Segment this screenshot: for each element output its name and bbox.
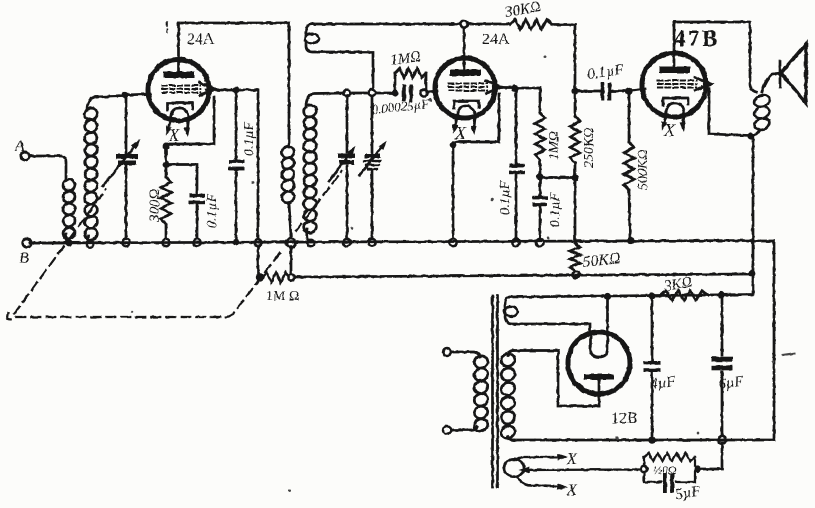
wire top bus to detector plate bbox=[313, 23, 461, 26]
V4 filament bbox=[591, 297, 608, 357]
wire to bus bbox=[574, 178, 577, 241]
wire grid condenser to V2 grid bbox=[427, 91, 437, 92]
wire T2 secondary to grid condenser bbox=[345, 92, 393, 95]
antenna coil L1 primary bbox=[61, 178, 76, 193]
junction bus / gang arrow node bbox=[287, 239, 296, 248]
tube V2 24A cathode bbox=[454, 101, 479, 108]
transformer winding: 12B filament bbox=[505, 297, 510, 307]
node: grid junction tube V1 bbox=[121, 91, 128, 98]
B+ line from rectifier bbox=[510, 295, 752, 298]
power transformer core bbox=[491, 296, 494, 487]
wire V3 plate to output bbox=[674, 22, 756, 92]
wire B to ground bus bbox=[31, 242, 66, 245]
V1 top cap lead bbox=[177, 23, 180, 73]
junction: antenna primary to bus bbox=[66, 240, 73, 247]
tube V1 24A grid bbox=[163, 84, 201, 86]
trimmer capacitor C3 bbox=[369, 89, 376, 96]
transformer T2 primary bbox=[280, 144, 296, 159]
crossover at bus bbox=[255, 239, 262, 246]
resistor 300ohm cathode bias bbox=[161, 177, 171, 224]
tube V2 24A plate bbox=[450, 70, 481, 77]
wire V3 side to output return bbox=[702, 87, 751, 136]
svg-text:0.1µF: 0.1µF bbox=[205, 193, 220, 228]
capacitor 0.1uF coupling bbox=[575, 90, 600, 93]
junction grid condenser left bbox=[391, 89, 398, 96]
tuning gang dashed link bbox=[7, 249, 283, 319]
tube V3 47B heater bbox=[666, 103, 684, 115]
resistor 500K grid bbox=[628, 91, 631, 142]
svg-text:X: X bbox=[566, 451, 578, 468]
tube V3 47B grid bbox=[658, 79, 696, 81]
tube V2 24A envelope bbox=[435, 58, 495, 118]
wire A to antenna coil bbox=[29, 156, 66, 179]
svg-text:0.1µF: 0.1µF bbox=[548, 192, 563, 227]
svg-text:12B: 12B bbox=[611, 410, 638, 427]
tube V3 47B envelope bbox=[642, 53, 706, 117]
capacitor 0.1uF bbox=[539, 177, 542, 196]
svg-text:300Ω: 300Ω bbox=[147, 189, 163, 224]
wire junction to V1 grid bbox=[125, 94, 150, 95]
tube V4 12B rectifier envelope bbox=[568, 332, 630, 394]
svg-text:0.1µF: 0.1µF bbox=[498, 180, 513, 215]
power transformer primary bbox=[443, 348, 451, 356]
tube V1 24A envelope bbox=[148, 60, 209, 121]
wire V1 plate to T2 primary bbox=[179, 23, 290, 147]
svg-text:X: X bbox=[168, 125, 181, 145]
transformer winding: HV secondary bbox=[508, 351, 513, 357]
svg-text:1MΩ: 1MΩ bbox=[547, 131, 562, 160]
resistor 30K detector plate load bbox=[467, 23, 510, 26]
svg-text:47B: 47B bbox=[674, 26, 720, 51]
resistor 50K bbox=[570, 243, 580, 271]
capacitor 6uF filter bbox=[721, 295, 724, 355]
V1 cathode circuit wires bbox=[206, 89, 236, 92]
transformer winding: output tubes filament bbox=[504, 459, 524, 476]
resistor 1M bias bbox=[256, 273, 264, 281]
speaker horn bbox=[762, 73, 781, 92]
resistor 3K filter bbox=[660, 291, 708, 301]
capacitor 5uF bbox=[644, 472, 661, 482]
svg-text:1M Ω: 1M Ω bbox=[266, 289, 299, 304]
antenna coil L1 secondary bbox=[83, 106, 99, 122]
capacitor 0.1uF cathode bypass bbox=[166, 165, 197, 195]
wire speaker return down right side bbox=[752, 136, 755, 294]
HV return wire bbox=[514, 439, 774, 442]
V2 cathode return box bbox=[456, 94, 499, 142]
tube V1 24A cathode bbox=[168, 103, 193, 110]
capacitor 4uF filter bbox=[651, 296, 654, 360]
svg-text:24A: 24A bbox=[187, 31, 215, 48]
wire hum resistor to HV return bbox=[701, 443, 722, 469]
filament lead X bottom bbox=[517, 477, 556, 487]
wire detector load node bbox=[540, 176, 575, 179]
tube V2 24A heater bbox=[457, 106, 475, 118]
svg-text:24A: 24A bbox=[482, 31, 510, 48]
svg-text:X: X bbox=[454, 123, 467, 143]
tube V3 47B cathode bbox=[663, 98, 688, 105]
tube V1 24A heater bbox=[171, 108, 189, 120]
capacitor 0.1uF screen bypass bbox=[235, 90, 238, 160]
resistor 1M bbox=[515, 88, 540, 113]
svg-text:500KΩ: 500KΩ bbox=[636, 150, 651, 190]
svg-text:0.1µF: 0.1µF bbox=[242, 121, 257, 156]
scan specks bbox=[131, 56, 796, 493]
V2 top cap lead bbox=[463, 27, 466, 71]
resistor 1M grid leak bbox=[394, 73, 397, 93]
svg-text:X: X bbox=[663, 120, 676, 140]
variable capacitor C1 (tuning gang section 1) bbox=[125, 95, 128, 153]
variable capacitor C2 (tuning gang section 2) bbox=[346, 96, 349, 152]
svg-text:250KΩ: 250KΩ bbox=[582, 128, 597, 168]
speaker driver coil bbox=[753, 93, 771, 109]
V4 plate bbox=[584, 374, 614, 380]
transformer T2 secondary bbox=[302, 103, 318, 119]
wire V2 out bbox=[495, 86, 515, 89]
plate choke loop bbox=[306, 24, 313, 34]
terminal A bbox=[21, 152, 29, 160]
svg-text:B: B bbox=[19, 250, 29, 267]
filament lead X top bbox=[517, 457, 556, 460]
capacitor 0.1uF detector plate bypass bbox=[515, 88, 518, 164]
tube V2 24A grid bbox=[449, 82, 487, 84]
svg-text:A: A bbox=[14, 138, 25, 155]
bias line bbox=[294, 274, 752, 277]
terminal B bbox=[23, 239, 32, 248]
tube V3 47B plate bbox=[659, 67, 690, 74]
ground bus main bbox=[30, 241, 753, 244]
V3 top cap lead bbox=[673, 22, 676, 68]
resistor 250K bbox=[574, 91, 577, 116]
capacitor 0.00025uF grid condenser bbox=[402, 85, 406, 102]
wire HV to 12B plate bbox=[513, 351, 599, 407]
svg-text:X: X bbox=[566, 482, 578, 499]
wire bus right corner down bbox=[753, 241, 774, 440]
tube V1 24A plate bbox=[164, 72, 195, 79]
V1 side return box bbox=[166, 97, 214, 144]
filament lead center tap bbox=[529, 468, 641, 471]
print mark bbox=[166, 22, 169, 32]
resistor hum balance bbox=[641, 466, 647, 472]
junction: antenna secondary to bus bbox=[87, 241, 93, 247]
